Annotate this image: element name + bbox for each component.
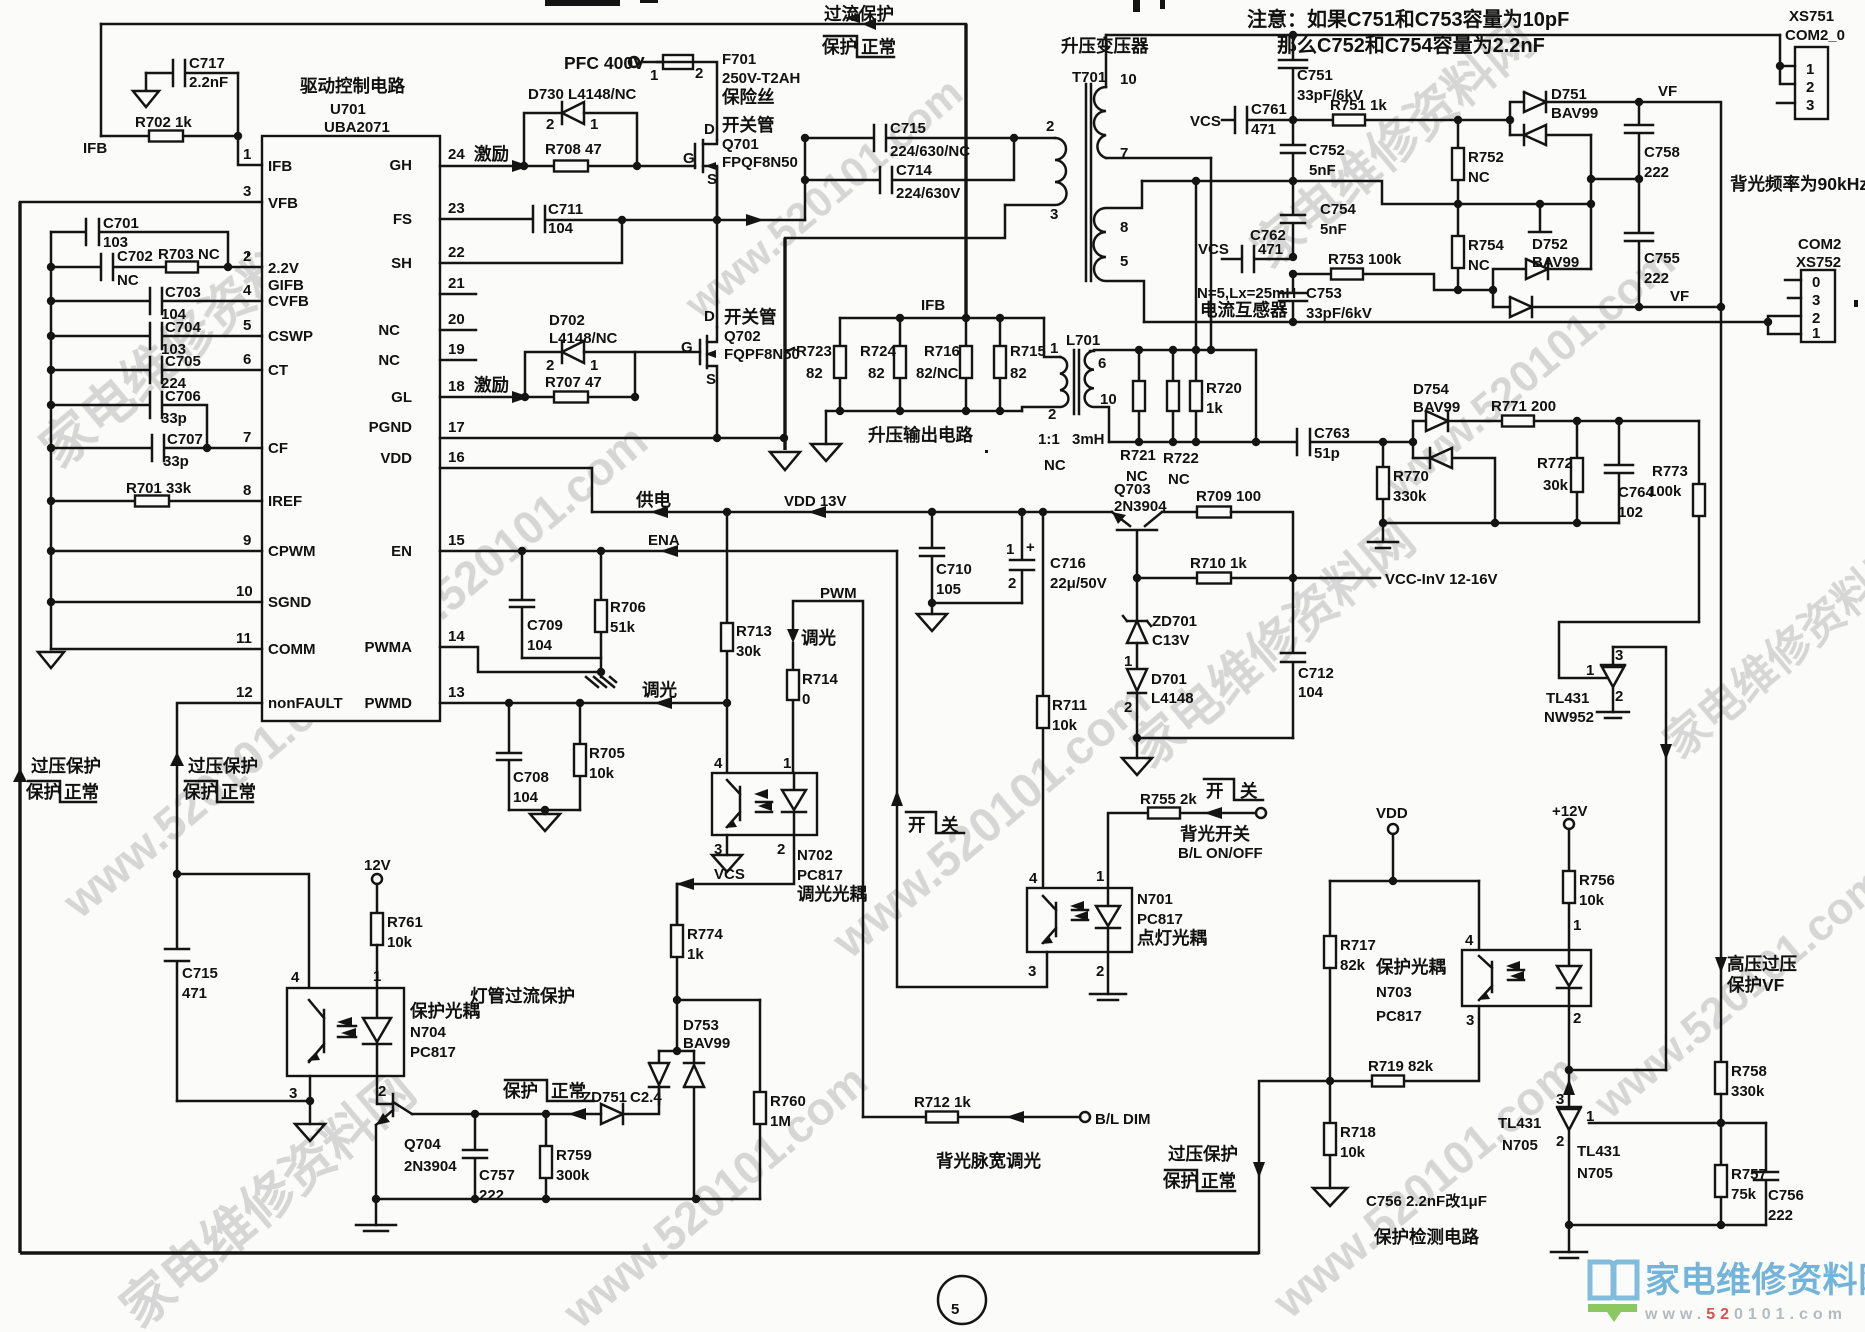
transistor Q704 (2N3904): [376, 1076, 457, 1199]
wire ZD701/C712 bottom: [1133, 734, 1293, 758]
resistor R770: [1377, 442, 1429, 523]
wire N704 pin3 node: [177, 1076, 314, 1124]
svg-text:75k: 75k: [1731, 1186, 1757, 1203]
svg-text:2: 2: [378, 1083, 386, 1100]
svg-text:保护VF: 保护VF: [1726, 975, 1785, 995]
svg-text:250V-T2AH: 250V-T2AH: [722, 70, 800, 87]
svg-text:背光开关: 背光开关: [1180, 824, 1250, 844]
svg-text:1: 1: [590, 116, 598, 133]
svg-text:R716: R716: [924, 343, 960, 360]
svg-text:N703: N703: [1376, 984, 1412, 1001]
svg-text:VCS: VCS: [1190, 113, 1221, 130]
svg-text:R753 100k: R753 100k: [1328, 251, 1402, 268]
svg-text:1: 1: [1006, 541, 1014, 558]
wire Q704 collector row: [412, 1108, 601, 1120]
svg-text:R708 47: R708 47: [545, 141, 602, 158]
svg-text:6: 6: [243, 351, 251, 368]
svg-text:4: 4: [243, 282, 252, 299]
svg-text:保护: 保护: [1162, 1171, 1198, 1191]
svg-text:C715: C715: [182, 965, 218, 982]
svg-text:TL431: TL431: [1577, 1143, 1620, 1160]
wire R770 bottom rail: [1379, 519, 1619, 542]
label 过流保护: [824, 4, 894, 30]
wire OVP feedback to bottom border: [1253, 1081, 1330, 1253]
svg-text:B/L ON/OFF: B/L ON/OFF: [1178, 845, 1263, 862]
svg-text:激励: 激励: [474, 144, 509, 164]
transistor Q703 (2N3904): [1112, 481, 1197, 578]
wire IFB bank top: [840, 297, 1044, 322]
capacitor C754: [1281, 181, 1357, 257]
svg-text:背光脉宽调光: 背光脉宽调光: [936, 1151, 1041, 1171]
svg-text:10k: 10k: [1340, 1144, 1366, 1161]
capacitor C758: [1625, 102, 1680, 181]
diode D730: [524, 86, 637, 166]
svg-text:C13V: C13V: [1152, 632, 1190, 649]
transistor Q702 (MOSFET): [681, 307, 800, 438]
svg-text:10: 10: [236, 583, 253, 600]
svg-text:222: 222: [1644, 270, 1669, 287]
resistor R711: [1037, 512, 1087, 888]
diode D754 (BAV99): [1413, 381, 1502, 523]
svg-text:2: 2: [1556, 1133, 1564, 1150]
svg-text:UBA2071: UBA2071: [324, 119, 390, 136]
ground (R718): [1313, 1188, 1347, 1206]
resistor R771: [1491, 398, 1699, 427]
svg-text:10k: 10k: [1052, 717, 1078, 734]
svg-text:关: 关: [1240, 781, 1258, 801]
capacitor C704 (pin5): [47, 319, 262, 358]
wire C710/C716 bottom: [928, 599, 1022, 614]
svg-text:R771 200: R771 200: [1491, 398, 1556, 415]
wire pin21 stub: [440, 293, 476, 296]
svg-text:升压输出电路: 升压输出电路: [868, 425, 973, 445]
svg-text:点灯光耦: 点灯光耦: [1137, 928, 1207, 948]
wire primary return (y238): [785, 205, 1005, 238]
wire EN row: [440, 532, 897, 557]
svg-text:C755: C755: [1644, 250, 1680, 267]
wire PWM loop: [787, 585, 863, 1117]
svg-text:82/NC: 82/NC: [916, 365, 959, 382]
svg-text:102: 102: [1618, 504, 1643, 521]
svg-text:Q702: Q702: [724, 328, 761, 345]
svg-text:1: 1: [1096, 868, 1104, 885]
svg-text:C758: C758: [1644, 144, 1680, 161]
svg-text:C763: C763: [1314, 425, 1350, 442]
svg-text:30k: 30k: [1543, 477, 1569, 494]
connector XS751: [1776, 8, 1845, 119]
capacitor C753: [1279, 274, 1372, 322]
ground (C708/R705): [530, 814, 560, 831]
node PFC 400V input: [564, 53, 703, 84]
svg-text:CF: CF: [268, 440, 288, 457]
svg-text:R710 1k: R710 1k: [1190, 555, 1247, 572]
wire C709/R706 bottom: [522, 658, 605, 677]
svg-text:R721: R721: [1120, 447, 1156, 464]
svg-text:N705: N705: [1502, 1137, 1538, 1154]
svg-text:R761: R761: [387, 914, 423, 931]
svg-text:D751: D751: [1551, 86, 1587, 103]
svg-text:VFB: VFB: [268, 195, 298, 212]
capacitor C705 (pin6): [47, 353, 262, 392]
note C751/C753: [1247, 7, 1569, 57]
svg-text:1: 1: [650, 67, 658, 84]
svg-text:D754: D754: [1413, 381, 1450, 398]
svg-text:C701: C701: [103, 215, 139, 232]
svg-text:CSWP: CSWP: [268, 328, 313, 345]
IC U701 box: [262, 136, 440, 721]
svg-text:14: 14: [448, 628, 465, 645]
wire FS corner to C714/C715: [801, 134, 809, 220]
scan specks: [247, 0, 1858, 453]
svg-text:C711: C711: [548, 201, 583, 218]
wire N701 pin3 to EN (开关): [891, 551, 1047, 987]
wire VFB left edge: [20, 201, 262, 204]
resistor R701 (pin8): [47, 480, 262, 507]
capacitor C714: [805, 134, 1018, 202]
svg-text:51p: 51p: [1314, 445, 1340, 462]
svg-text:6: 6: [1098, 355, 1106, 372]
wire FS row / capacitor C711: [440, 201, 805, 237]
svg-text:关: 关: [941, 815, 959, 835]
wire cold return row: [1144, 318, 1772, 326]
svg-text:18: 18: [448, 378, 465, 395]
wire HV top line: [1106, 34, 1780, 37]
resistor R718: [1324, 1081, 1376, 1188]
svg-text:13: 13: [448, 684, 465, 701]
svg-text:2.2nF: 2.2nF: [189, 74, 228, 91]
capacitor C752: [1281, 120, 1345, 181]
svg-text:保护: 保护: [182, 782, 218, 802]
resistor R722: [1163, 350, 1199, 488]
svg-text:3: 3: [243, 183, 251, 200]
svg-text:16: 16: [448, 449, 465, 466]
svg-text:C708: C708: [513, 769, 549, 786]
svg-text:51k: 51k: [610, 619, 636, 636]
MAIN SCHEMATIC: [262, 76, 440, 721]
svg-text:S: S: [706, 371, 716, 388]
svg-text:C752: C752: [1309, 142, 1345, 159]
svg-text:IFB: IFB: [268, 158, 292, 175]
wire VCC-InV net: [1293, 571, 1498, 588]
svg-text:19: 19: [448, 341, 465, 358]
wire R72x bottom line to C763: [1109, 350, 1260, 446]
svg-text:2: 2: [1615, 688, 1623, 705]
svg-text:1: 1: [373, 968, 381, 985]
svg-text:5: 5: [1120, 253, 1128, 270]
TL431 N705: [1498, 1091, 1620, 1225]
ground (IFB bank): [811, 444, 841, 461]
wire left border OVP run: [18, 202, 21, 1253]
svg-text:NC: NC: [378, 322, 400, 339]
svg-text:R702 1k: R702 1k: [135, 114, 192, 131]
svg-text:D752: D752: [1532, 236, 1568, 253]
svg-text:2: 2: [243, 248, 251, 265]
resistor R753: [1293, 251, 1493, 290]
wire pin12 nonFAULT: [177, 703, 262, 874]
svg-text:D: D: [704, 121, 715, 138]
svg-text:nonFAULT: nonFAULT: [268, 695, 343, 712]
svg-text:CPWM: CPWM: [268, 543, 316, 560]
wire T701 pin7 sense vertical: [1210, 158, 1213, 350]
svg-text:BAV99: BAV99: [1551, 105, 1598, 122]
svg-text:VDD: VDD: [1376, 805, 1408, 822]
svg-text:C716: C716: [1050, 555, 1086, 572]
svg-text:VDD 13V: VDD 13V: [784, 493, 847, 510]
capacitor C764: [1605, 421, 1655, 523]
svg-text:TL431: TL431: [1498, 1115, 1541, 1132]
resistor R751: [1293, 97, 1514, 126]
svg-text:R715: R715: [1010, 343, 1046, 360]
svg-text:那么C752和C754容量为2.2nF: 那么C752和C754容量为2.2nF: [1277, 33, 1545, 57]
wire C708/R705 bottom: [509, 806, 580, 814]
svg-text:82: 82: [1010, 365, 1027, 382]
svg-text:4: 4: [291, 969, 300, 986]
svg-text:R724: R724: [860, 343, 897, 360]
svg-text:IFB: IFB: [921, 297, 945, 314]
resistor R721: [1120, 350, 1156, 485]
capacitor C715 (471): [165, 874, 218, 1101]
wire half-bridge mid vertical: [716, 168, 719, 327]
wire N701 pin1 / resistor R755: [1108, 791, 1266, 888]
svg-text:U701: U701: [330, 101, 366, 118]
capacitor C762: [1198, 227, 1297, 278]
svg-text:33p: 33p: [161, 410, 187, 427]
svg-text:2: 2: [1008, 575, 1016, 592]
wire pin11 COMM: [51, 648, 262, 651]
node 12V supply: [364, 857, 391, 913]
wire GH gate drive row: [440, 144, 695, 172]
capacitor C756: [1754, 1123, 1804, 1225]
svg-text:保护检测电路: 保护检测电路: [1373, 1227, 1479, 1247]
svg-text:ZD701: ZD701: [1152, 613, 1197, 630]
svg-text:224/630V: 224/630V: [896, 185, 960, 202]
ground (left bus): [38, 652, 64, 668]
svg-text:C702: C702: [117, 248, 153, 265]
svg-text:VCC-InV 12-16V: VCC-InV 12-16V: [1385, 571, 1498, 588]
svg-text:R712 1k: R712 1k: [914, 1094, 971, 1111]
svg-text:1: 1: [243, 146, 251, 163]
svg-text:正常: 正常: [1201, 1171, 1236, 1191]
svg-text:104: 104: [1298, 684, 1324, 701]
svg-text:Q703: Q703: [1114, 481, 1151, 498]
svg-text:D: D: [704, 308, 715, 325]
svg-text:104: 104: [513, 789, 539, 806]
svg-text:R754: R754: [1468, 237, 1505, 254]
resistor R708: [545, 141, 602, 172]
svg-text:222: 222: [1768, 1207, 1793, 1224]
svg-text:www.520101.com: www.520101.com: [1644, 1306, 1847, 1323]
svg-text:3: 3: [1050, 206, 1058, 223]
svg-text:T701: T701: [1072, 69, 1106, 86]
svg-text:驱动控制电路: 驱动控制电路: [300, 76, 405, 96]
wire N703 pin2 node: [1563, 1006, 1666, 1107]
annotation 过压保护 (bottom): [1162, 1144, 1238, 1191]
ground (hatch, PWMA/R706): [586, 677, 616, 687]
transformer T701: [1005, 35, 1211, 322]
svg-text:VF: VF: [1658, 83, 1677, 100]
wire IFB bank bottom: [826, 407, 1022, 444]
svg-text:C717: C717: [189, 55, 225, 72]
svg-text:3: 3: [1556, 1091, 1564, 1108]
svg-text:GIFB: GIFB: [268, 277, 304, 294]
svg-text:1k: 1k: [1206, 400, 1223, 417]
svg-text:471: 471: [182, 985, 207, 1002]
svg-text:2: 2: [1096, 963, 1104, 980]
svg-text:5nF: 5nF: [1309, 162, 1336, 179]
svg-text:VCS: VCS: [714, 866, 745, 883]
secondary winding pins 10-7: [1105, 35, 1108, 87]
svg-text:PWMA: PWMA: [365, 639, 413, 656]
svg-text:7: 7: [243, 429, 251, 446]
svg-text:12V: 12V: [364, 857, 391, 874]
svg-text:过压保护: 过压保护: [31, 756, 101, 776]
wire main ground vertical: [783, 238, 786, 450]
resistor R773: [1648, 421, 1705, 622]
svg-text:1: 1: [783, 755, 791, 772]
svg-text:NC: NC: [1468, 257, 1490, 274]
svg-text:R706: R706: [610, 599, 646, 616]
resistor R705: [574, 703, 625, 810]
capacitor C761: [1190, 101, 1297, 138]
svg-text:XS752: XS752: [1796, 254, 1841, 271]
svg-text:10: 10: [1100, 391, 1117, 408]
svg-text:3mH: 3mH: [1072, 431, 1105, 448]
svg-text:2: 2: [777, 841, 785, 858]
svg-text:471: 471: [1251, 121, 1276, 138]
svg-text:背光频率为90kHz: 背光频率为90kHz: [1730, 174, 1865, 194]
svg-text:PWMD: PWMD: [365, 695, 413, 712]
svg-text:GH: GH: [390, 157, 413, 174]
svg-text:R756: R756: [1579, 872, 1615, 889]
resistor R774: [671, 884, 724, 1000]
annotation 保护/正常 (top): [821, 36, 896, 57]
svg-text:D730 L4148/NC: D730 L4148/NC: [528, 86, 637, 103]
svg-text:保护: 保护: [25, 782, 61, 802]
zener ZD701: [1123, 578, 1197, 649]
svg-text:2.2V: 2.2V: [268, 260, 299, 277]
svg-text:FQPF8N50: FQPF8N50: [724, 346, 800, 363]
svg-text:R705: R705: [589, 745, 625, 762]
capacitor C706: [47, 388, 207, 448]
svg-text:S: S: [707, 171, 717, 188]
svg-text:2: 2: [1806, 79, 1814, 96]
svg-text:调光: 调光: [642, 680, 677, 700]
wire nonFAULT node to N704: [173, 870, 309, 988]
wire Q704 emitter ground row: [372, 1195, 760, 1225]
svg-text:CVFB: CVFB: [268, 293, 309, 310]
svg-text:2: 2: [546, 357, 554, 374]
svg-text:10k: 10k: [589, 765, 615, 782]
svg-text:PC817: PC817: [1137, 911, 1183, 928]
ground (half-bridge): [770, 452, 800, 470]
svg-text:3: 3: [1028, 963, 1036, 980]
resistor R758: [1715, 1062, 1767, 1123]
wire pin10 SGND: [47, 598, 262, 606]
svg-text:C710: C710: [936, 561, 972, 578]
node VDD (N703 rail): [1330, 805, 1479, 950]
svg-text:R758: R758: [1731, 1063, 1767, 1080]
capacitor C701: [51, 215, 228, 267]
optocoupler N702: [712, 755, 867, 904]
svg-text:BAV99: BAV99: [683, 1035, 730, 1052]
svg-text:XS751: XS751: [1789, 8, 1834, 25]
svg-text:COM2_0: COM2_0: [1785, 27, 1845, 44]
svg-text:330k: 330k: [1731, 1083, 1765, 1100]
svg-text:82k: 82k: [1340, 957, 1366, 974]
svg-text:VF: VF: [1670, 288, 1689, 305]
ground (C710): [917, 614, 947, 631]
svg-text:2: 2: [1048, 406, 1056, 423]
svg-text:调光光耦: 调光光耦: [797, 884, 867, 904]
svg-text:C703: C703: [165, 284, 201, 301]
diode D752 (BAV99): [1489, 204, 1591, 317]
svg-text:正常: 正常: [551, 1081, 586, 1101]
svg-text:0: 0: [1812, 274, 1820, 291]
svg-text:FS: FS: [393, 211, 412, 228]
svg-text:保险丝: 保险丝: [721, 87, 775, 107]
capacitor C707 (pin7): [47, 431, 262, 470]
svg-text:SH: SH: [391, 255, 412, 272]
svg-text:10: 10: [1120, 71, 1137, 88]
resistor R715: [994, 318, 1046, 411]
wire N702 pin2 VCS: [676, 835, 794, 890]
transistor Q701 (MOSFET): [683, 115, 798, 220]
svg-text:2N3904: 2N3904: [1114, 498, 1167, 515]
svg-text:VCS: VCS: [1198, 241, 1229, 258]
svg-text:C704: C704: [165, 319, 202, 336]
wire pin20 stub: [440, 329, 476, 332]
svg-text:12: 12: [236, 684, 253, 701]
svg-text:N701: N701: [1137, 891, 1173, 908]
resistor R712: [863, 1094, 1151, 1128]
wire top OCP line: [101, 23, 966, 26]
svg-text:NC: NC: [1044, 457, 1066, 474]
ground (R770, bar style): [1368, 542, 1398, 548]
svg-text:IFB: IFB: [83, 140, 107, 157]
svg-text:R774: R774: [687, 926, 724, 943]
ground (TL431 N705, bar style): [1551, 1252, 1587, 1258]
wire VF loop top: [1635, 83, 1721, 307]
svg-text:NC: NC: [378, 352, 400, 369]
svg-text:30k: 30k: [736, 643, 762, 660]
annotation 过压保护 (nonFAULT line): [170, 752, 258, 802]
svg-text:1: 1: [1812, 325, 1820, 342]
logo 家电维修资料网: [1588, 1261, 1865, 1323]
TL431 NW952: [1544, 647, 1625, 726]
svg-text:N704: N704: [410, 1024, 447, 1041]
diode D751 (BAV99): [1510, 86, 1639, 145]
svg-text:10k: 10k: [387, 934, 413, 951]
svg-text:L701: L701: [1066, 332, 1100, 349]
svg-text:C2.4: C2.4: [630, 1089, 662, 1106]
svg-text:C715: C715: [890, 120, 926, 137]
svg-text:过压保护: 过压保护: [188, 756, 258, 776]
svg-text:33p: 33p: [163, 453, 189, 470]
capacitor C715 (224/630/NC): [805, 120, 1014, 160]
wire PGND row: [440, 434, 788, 442]
capacitor C708: [497, 703, 549, 810]
wire R72x top line: [1094, 346, 1256, 354]
svg-text:TL431: TL431: [1546, 690, 1589, 707]
svg-text:NC: NC: [1168, 471, 1190, 488]
svg-text:82: 82: [868, 365, 885, 382]
wire TL431 ref row: [1589, 1119, 1766, 1127]
svg-text:R773: R773: [1652, 463, 1688, 480]
resistor R759: [540, 1114, 592, 1199]
svg-text:20: 20: [448, 311, 465, 328]
svg-text:3: 3: [1806, 97, 1814, 114]
svg-text:R719 82k: R719 82k: [1368, 1058, 1434, 1075]
